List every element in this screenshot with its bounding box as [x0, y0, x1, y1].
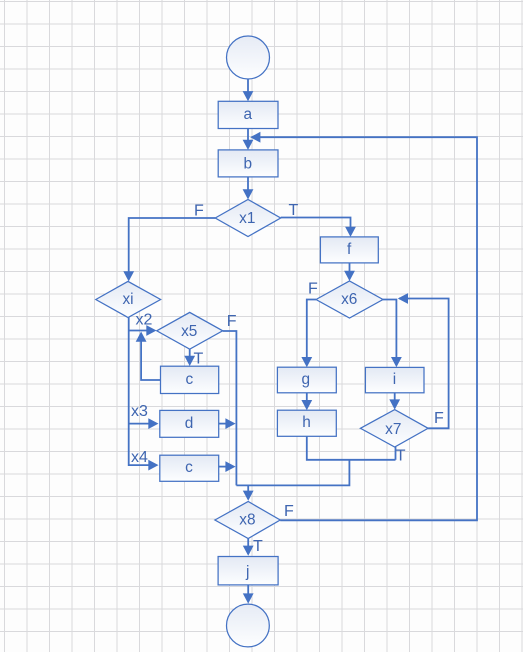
svg-text:x3: x3 [131, 403, 148, 420]
svg-text:b: b [244, 155, 253, 172]
svg-text:x1: x1 [239, 210, 255, 227]
svg-text:x8: x8 [239, 512, 255, 529]
svg-text:a: a [244, 106, 253, 123]
svg-text:x4: x4 [131, 449, 148, 466]
svg-text:x2: x2 [136, 312, 153, 329]
svg-text:x7: x7 [385, 421, 401, 438]
svg-text:T: T [194, 351, 204, 368]
svg-text:d: d [185, 415, 194, 432]
svg-text:i: i [393, 371, 396, 388]
svg-text:T: T [396, 448, 406, 465]
svg-text:h: h [302, 414, 311, 431]
svg-text:xi: xi [122, 291, 133, 308]
svg-text:F: F [308, 281, 318, 298]
svg-text:j: j [245, 563, 249, 580]
svg-text:x5: x5 [181, 323, 197, 340]
svg-text:F: F [194, 203, 204, 220]
svg-text:c: c [186, 371, 194, 388]
svg-text:T: T [289, 202, 299, 219]
svg-text:g: g [302, 371, 311, 388]
svg-text:T: T [253, 538, 263, 555]
svg-text:F: F [227, 313, 237, 330]
svg-text:x6: x6 [341, 291, 357, 308]
svg-text:c: c [185, 459, 193, 476]
svg-text:F: F [434, 410, 444, 427]
svg-text:f: f [347, 241, 352, 258]
svg-text:F: F [284, 503, 294, 520]
